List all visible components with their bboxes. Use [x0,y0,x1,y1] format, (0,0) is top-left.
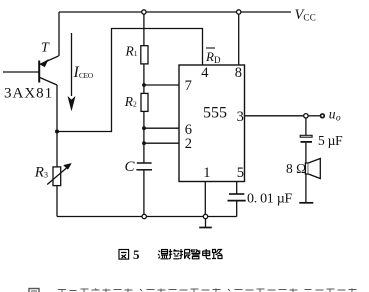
wire 5uF to speaker [305,143,307,163]
current arrow I_CEO [68,33,75,111]
wire to pin 6 [144,127,179,129]
wire 0.01uF to rail [236,201,238,217]
wire pin 8 to Vcc rail [238,12,240,65]
wire junction to 5uF cap [305,118,307,135]
wire pin 5 down [236,182,238,194]
char 控 [169,249,180,259]
label RD-bar reset [205,48,221,65]
wire to output terminal [308,115,320,117]
node circle top rail at pin8 [237,10,241,14]
char 电 [203,249,211,259]
node circle bottom rail at pin1/ground [203,214,207,218]
terminal circle u_o [321,114,325,118]
wire to pin 7 [144,84,179,86]
bottom rail [57,216,237,218]
wire collector to pin4 (RD) loop [57,29,203,132]
wire pin 1 down [204,182,206,215]
capacitor C [136,163,152,170]
wire top Vcc rail [59,11,291,13]
ground (speaker) [299,202,313,204]
wire to pin 2 [144,142,179,144]
node junction dot pin6 tap [142,126,146,130]
char 报 [180,249,191,259]
node junction dot pin7 tap [142,83,146,87]
wire speaker to ground [305,174,307,203]
wire collector down [56,85,58,217]
capacitor 5uF electrolytic [300,135,312,142]
svg-text:5: 5 [133,247,140,262]
transistor T 3AX81 [3,56,59,85]
bottom cut-off text row [29,289,357,292]
node circle top rail at R1 [142,10,146,14]
resistor R2 [141,93,148,111]
wire pin 3 output [245,115,304,117]
char 温 [158,250,169,259]
speaker 8 ohm [305,159,320,179]
resistor R3 (adjustable) [47,163,71,185]
node junction dot pin2 tap [142,141,146,145]
ground (main) [199,219,212,228]
node junction circle output [304,114,308,118]
char 图 [119,250,129,260]
char 路 [212,250,222,259]
node junction dot collector/RD loop [55,130,59,134]
capacitor 0.01uF [228,194,246,201]
char 警 [191,250,201,259]
resistor R1 [141,46,148,64]
IC U1 555 [179,65,245,182]
node circle bottom rail at C [142,214,146,218]
wire Vcc rail to R1 column [143,12,145,163]
wire emitter to Vcc rail [58,12,60,56]
wire below C to bottom rail [143,170,145,215]
